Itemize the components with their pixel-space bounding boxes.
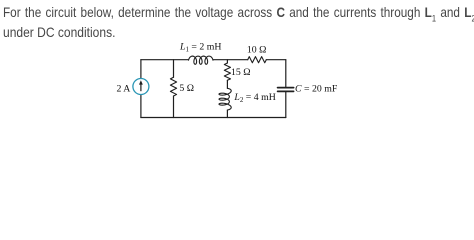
resistor 15ohm [224,63,230,80]
wire middle branch upper lead [226,60,228,63]
wire top rail middle segment [213,59,248,61]
wire right branch below capacitor [285,92,287,117]
svg-text:L2 = 4 mH: L2 = 4 mH [233,92,275,104]
wire between 15ohm and L2 [226,80,228,88]
wire left branch below source [140,95,142,118]
capacitor C top plate [278,87,294,89]
wire bottom rail [141,117,286,119]
wire top rail left segment [141,59,189,61]
current source 2A circle [133,79,149,95]
wire 5ohm branch lower lead [173,96,175,118]
svg-text:5 Ω: 5 Ω [179,83,194,94]
wire L2 lower lead [226,110,228,118]
resistor 5ohm [170,77,176,96]
svg-text:L1 = 2 mH: L1 = 2 mH [179,42,221,54]
wire 5ohm branch upper lead [173,60,175,78]
svg-text:2 A: 2 A [117,83,131,94]
wire right branch above capacitor [285,60,287,87]
svg-text:15 Ω: 15 Ω [231,67,251,78]
wire top rail right segment [266,59,286,61]
svg-text:10 Ω: 10 Ω [247,44,267,55]
inductor L2 [219,88,231,110]
capacitor C bottom plate [278,90,294,92]
question text line 1 [3,5,474,19]
wire left branch above source [140,60,142,78]
resistor 10ohm [248,57,267,63]
svg-text:C = 20 mF: C = 20 mF [295,84,338,95]
current source arrow [139,80,143,91]
inductor L1 [189,56,214,64]
question text line 2 [3,25,115,39]
